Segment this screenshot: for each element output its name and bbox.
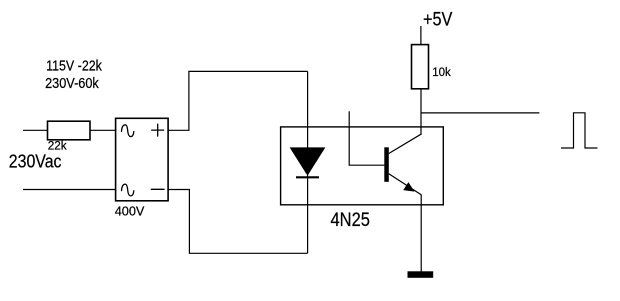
svg-text:10k: 10k <box>432 65 451 79</box>
svg-text:115V -22k: 115V -22k <box>46 59 102 75</box>
svg-text:230Vac: 230Vac <box>9 151 62 172</box>
svg-text:+5V: +5V <box>423 9 453 30</box>
svg-text:4N25: 4N25 <box>331 210 370 231</box>
svg-text:400V: 400V <box>115 203 145 218</box>
svg-text:230V-60k: 230V-60k <box>45 76 99 92</box>
